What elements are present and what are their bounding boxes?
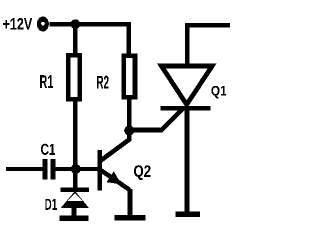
label Q2: [134, 165, 151, 180]
transistor Q2 emitter arrow: [107, 171, 122, 184]
thyristor Q1 triangle: [161, 66, 212, 105]
node: junction dot at R1 / +12V rail: [71, 19, 81, 29]
wire: C1 right lead to junction: [55, 167, 98, 171]
wire: Q2 emitter diagonal: [101, 170, 130, 190]
capacitor C1 plate left: [43, 159, 48, 180]
wire: Q1 anode top wire from right edge: [187, 25, 230, 66]
wire: gate wire to Q1: [129, 108, 183, 130]
wire: Q1 cathode vertical to ground: [185, 110, 190, 216]
label R2: [97, 76, 109, 89]
wire: R2 bottom down to collector junction: [127, 97, 132, 131]
wire: D1 top lead: [73, 169, 78, 189]
node: junction dot C1/R1/D1/Q2 base: [71, 164, 81, 174]
ground bar under D1: [60, 216, 89, 222]
transistor Q2 base bar: [98, 150, 102, 190]
ground bar under Q1: [175, 211, 199, 217]
capacitor C1 plate right: [50, 159, 55, 180]
wire: Q2 emitter vertical to ground: [128, 189, 133, 217]
wire: C1 left lead: [6, 167, 43, 171]
node: junction dot R2/Q2 collector/Q1 gate: [124, 125, 134, 135]
wire: R1 bottom down to C1 junction: [73, 99, 78, 169]
thyristor Q1 cathode bar: [160, 106, 210, 111]
label C1: [41, 144, 55, 155]
diode D1 cathode bar: [61, 187, 90, 192]
+12V supply label: [3, 18, 32, 30]
resistor R2: [124, 56, 135, 98]
+12V terminal circle: [37, 17, 49, 32]
label R1: [40, 75, 53, 88]
label Q1: [211, 86, 226, 99]
resistor R1: [68, 55, 79, 99]
label D1: [45, 199, 57, 210]
wire: +12V rail top, corner down to R2: [50, 24, 129, 56]
wire: D1 bottom lead: [72, 207, 77, 217]
wire: R1 top branch: [73, 24, 78, 56]
ground bar under Q2: [114, 215, 145, 220]
diode D1 triangle: [61, 191, 89, 208]
wire: Q2 collector from junction: [101, 131, 130, 161]
